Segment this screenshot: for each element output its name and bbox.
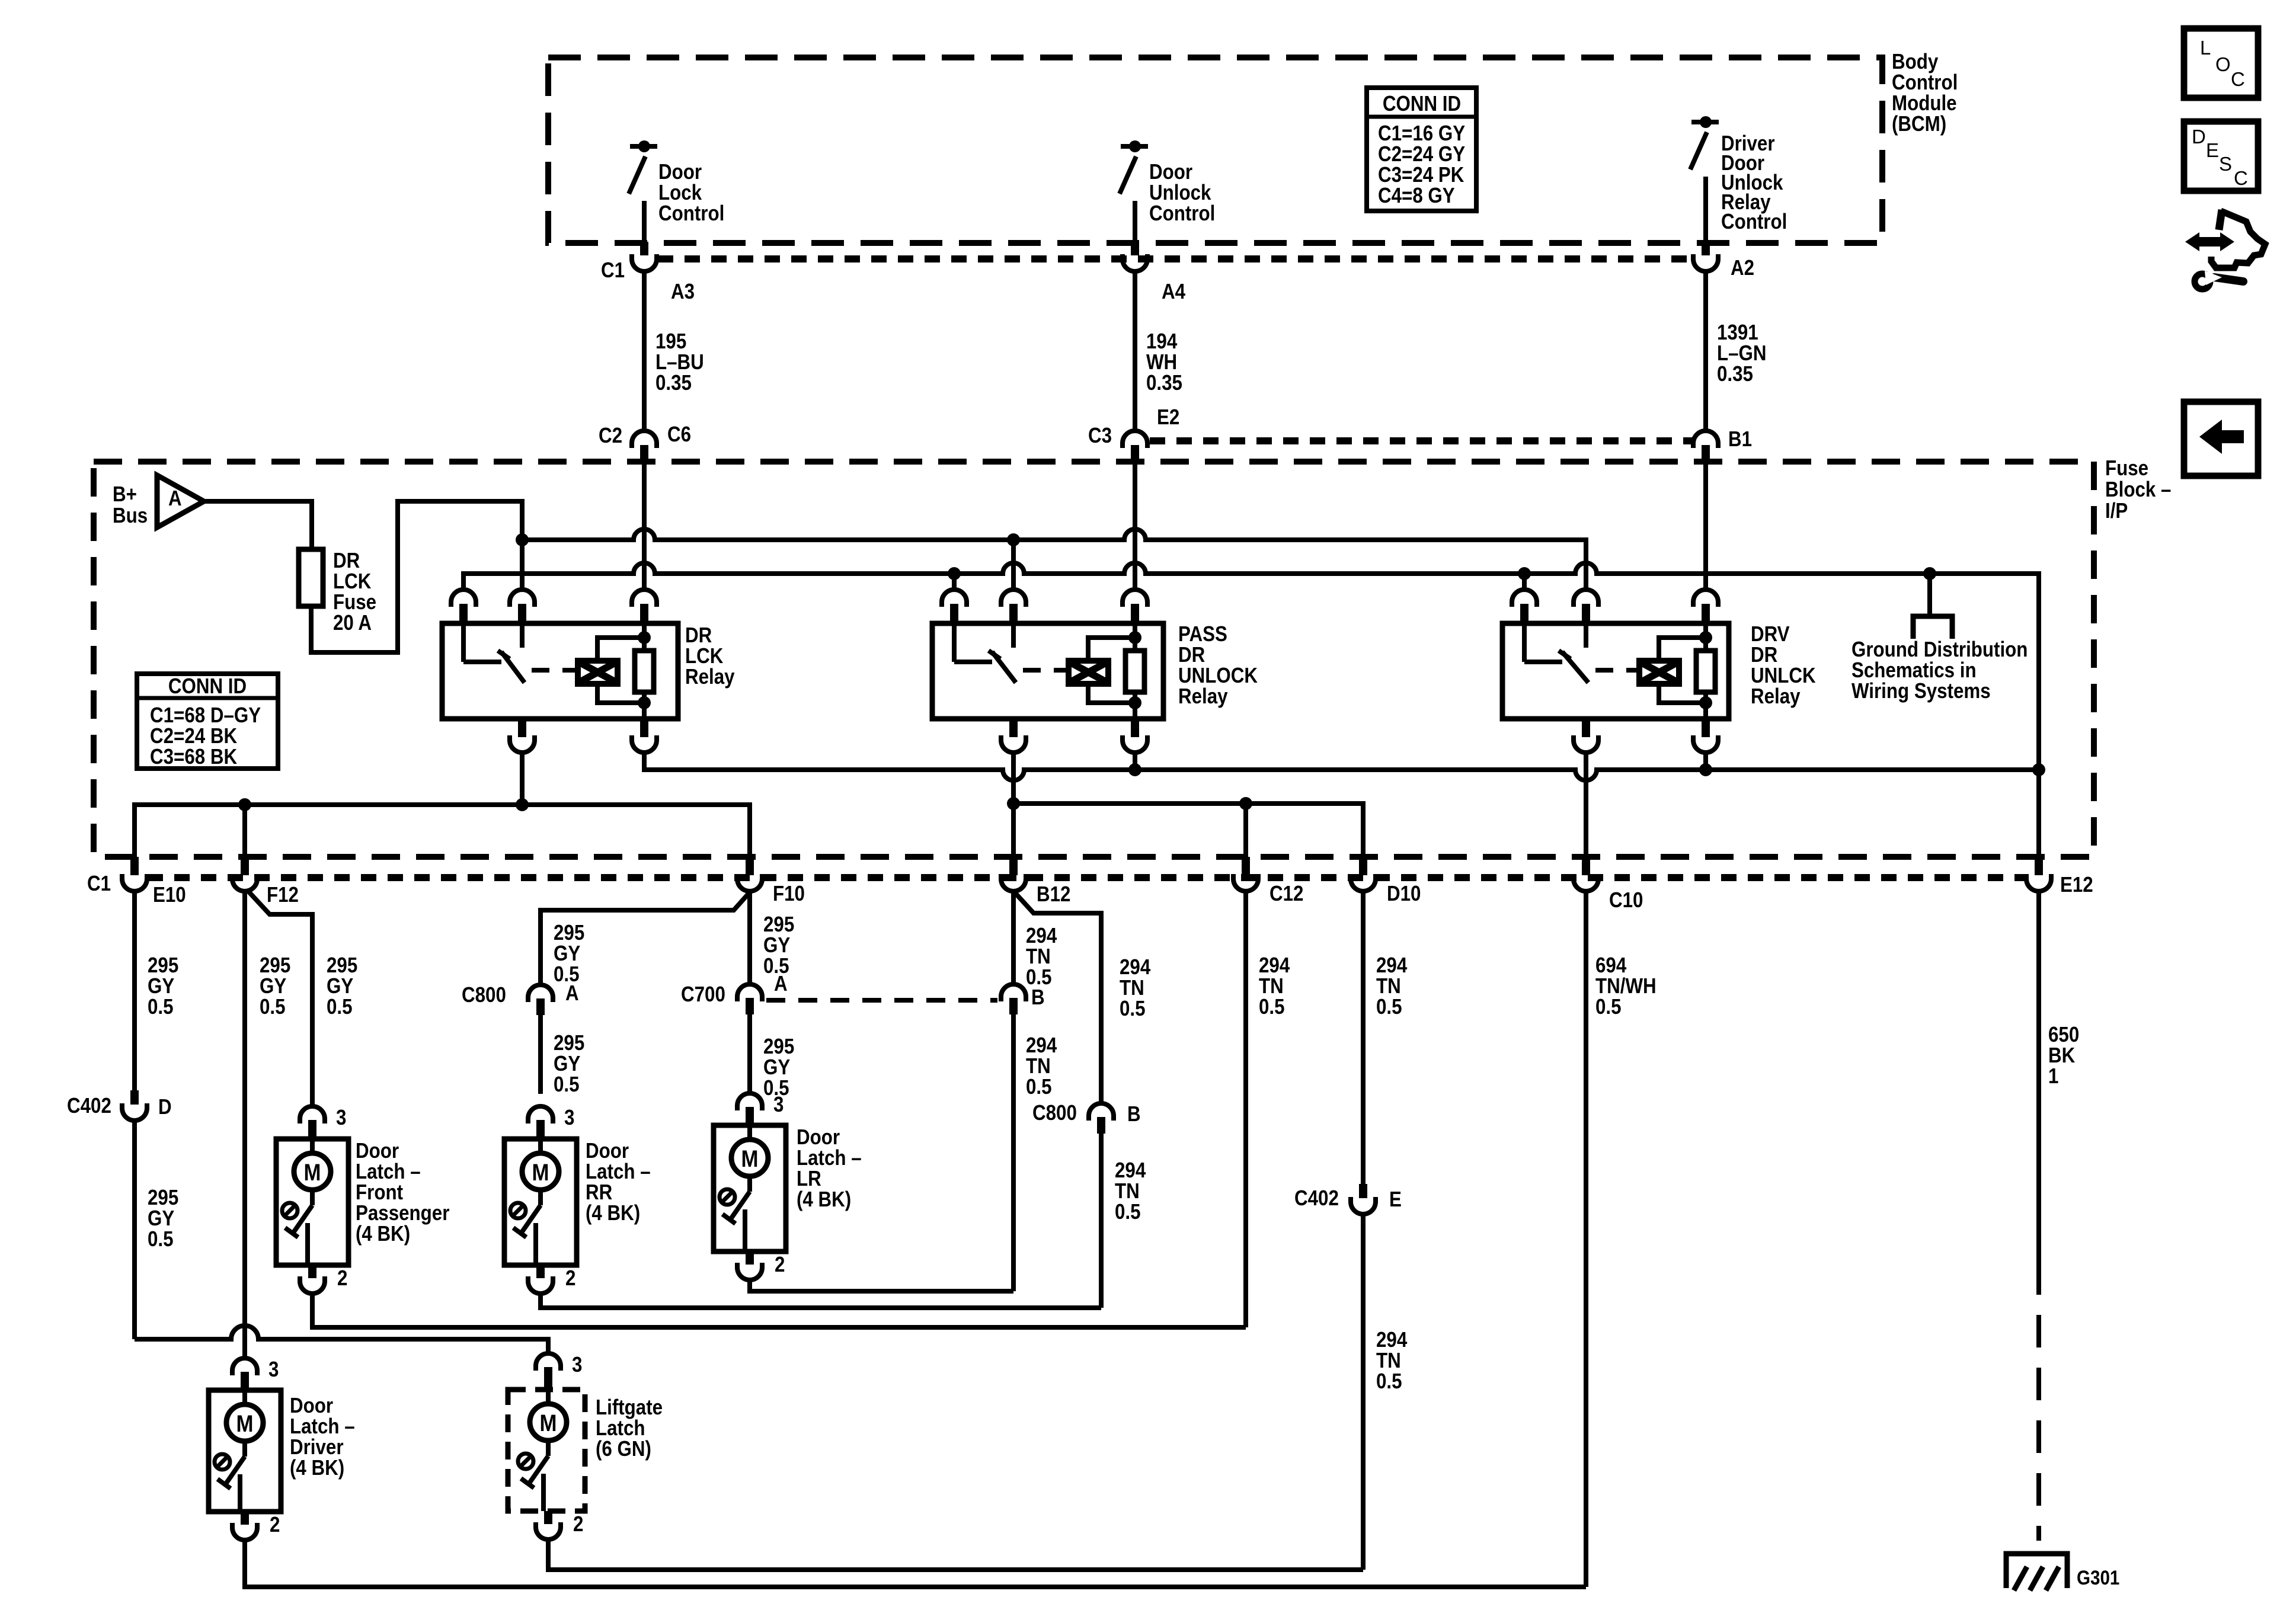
svg-text:0.5: 0.5 bbox=[148, 1227, 174, 1251]
wire F12 down to driver latch bbox=[242, 891, 247, 1358]
svg-text:C10: C10 bbox=[1609, 888, 1643, 913]
connector E10 bbox=[130, 857, 139, 875]
svg-text:A: A bbox=[565, 981, 579, 1006]
svg-text:0.5: 0.5 bbox=[1376, 1369, 1402, 1394]
switch: Driver Door Unlock Relay Control bbox=[1691, 120, 1719, 124]
relay DRV DR UNLCK coil junction dots bbox=[1699, 631, 1712, 644]
svg-text:0.5: 0.5 bbox=[1120, 997, 1146, 1021]
svg-text:M: M bbox=[236, 1410, 254, 1437]
B+ Bus triangle A bbox=[157, 475, 204, 527]
wire DR LCK output bbox=[520, 753, 525, 805]
relay DR LCK top pin bbox=[451, 590, 476, 607]
wire fuse to bus bbox=[311, 501, 522, 652]
svg-text:M: M bbox=[304, 1159, 321, 1186]
svg-text:D10: D10 bbox=[1387, 882, 1421, 906]
switch: Door Unlock Control bbox=[1121, 144, 1148, 149]
svg-text:F12: F12 bbox=[267, 883, 299, 907]
connector C402-E bbox=[1359, 1184, 1367, 1198]
wire LR pin2 to B12 chain bbox=[750, 1280, 1013, 1291]
wire 195 L-BU bbox=[642, 271, 647, 431]
svg-text:3: 3 bbox=[336, 1106, 346, 1130]
svg-text:(4 BK): (4 BK) bbox=[586, 1201, 640, 1225]
relay PASS DR UNLOCK box bbox=[932, 623, 1163, 719]
Door Latch LR motor symbol bbox=[731, 1140, 768, 1176]
connector C2-C6 bbox=[632, 431, 657, 448]
connector F10 bbox=[746, 857, 754, 875]
ground distribution bracket bbox=[1913, 616, 1952, 639]
svg-text:0.5: 0.5 bbox=[554, 1073, 580, 1097]
relay PASS DR UNLOCK switch bbox=[952, 623, 957, 662]
wire C800B lower bbox=[1099, 1134, 1104, 1308]
svg-text:2: 2 bbox=[775, 1253, 785, 1277]
svg-text:S: S bbox=[2219, 153, 2232, 175]
wire D10 lower bbox=[1361, 1214, 1366, 1570]
junction dot lock bus DR LCK out bbox=[516, 798, 529, 811]
relay DR LCK actuation dashed line bbox=[532, 668, 565, 673]
wire RR pin2 to C800B chain bbox=[541, 1294, 1101, 1308]
wire F12 branch to passenger bbox=[247, 890, 312, 1106]
ground G301 bbox=[2006, 1554, 2067, 1588]
svg-text:C1: C1 bbox=[87, 872, 111, 896]
svg-text:Wiring Systems: Wiring Systems bbox=[1851, 679, 1991, 703]
wire F10 branch to RR bbox=[541, 894, 749, 985]
svg-text:2: 2 bbox=[337, 1266, 347, 1291]
relay DR LCK top pin bbox=[510, 590, 535, 607]
svg-text:O: O bbox=[2215, 53, 2231, 75]
wire E10 to liftgate bbox=[135, 1326, 548, 1353]
relay DRV DR UNLCK bottom pin bbox=[1702, 719, 1710, 737]
Door Latch LR pin 3 connector bbox=[737, 1093, 762, 1110]
svg-text:A: A bbox=[168, 486, 182, 511]
wire C12 drop to row bbox=[1243, 804, 1248, 857]
relay DRV DR UNLCK top pin bbox=[1693, 590, 1718, 607]
svg-text:0.5: 0.5 bbox=[327, 995, 353, 1019]
connector C12 bbox=[1242, 857, 1250, 875]
wire E10 down bbox=[132, 891, 137, 1090]
svg-text:C1: C1 bbox=[601, 258, 625, 283]
svg-text:(4 BK): (4 BK) bbox=[797, 1188, 851, 1212]
wire 194 WH bbox=[1133, 271, 1137, 431]
Door Latch Driver box bbox=[209, 1390, 281, 1512]
svg-text:C402: C402 bbox=[1294, 1186, 1339, 1211]
Door Latch RR motor symbol bbox=[522, 1153, 559, 1190]
Liftgate Latch box (dashed) bbox=[508, 1390, 585, 1511]
relay DRV DR UNLCK switch bbox=[1522, 623, 1527, 662]
Door Latch Driver motor symbol bbox=[226, 1404, 263, 1441]
Door Latch RR pin 3 connector bbox=[528, 1106, 553, 1124]
relay DR LCK switch bbox=[461, 623, 466, 662]
relay DRV DR UNLCK top pin bbox=[1512, 590, 1537, 607]
svg-text:I/P: I/P bbox=[2105, 499, 2128, 523]
relay PASS DR UNLOCK coil bbox=[1069, 661, 1108, 684]
svg-text:(6 GN): (6 GN) bbox=[596, 1437, 651, 1461]
LOC icon box bbox=[2184, 28, 2258, 98]
fuse CONN ID table bbox=[137, 674, 278, 769]
wire E10 lower bbox=[132, 1121, 137, 1339]
svg-text:C800: C800 bbox=[462, 983, 506, 1007]
svg-text:3: 3 bbox=[268, 1358, 279, 1382]
svg-text:2: 2 bbox=[573, 1512, 583, 1537]
connector F12 bbox=[241, 857, 249, 875]
connector C402-D bbox=[130, 1090, 139, 1105]
Door Latch Driver pin 2 connector bbox=[241, 1512, 249, 1525]
dashed link C700A to B bbox=[766, 998, 997, 1003]
svg-text:20 A: 20 A bbox=[333, 611, 372, 635]
svg-text:B1: B1 bbox=[1728, 427, 1752, 452]
relay DR LCK coil junction dots bbox=[638, 631, 651, 644]
connector B12 bbox=[1009, 857, 1018, 875]
svg-text:C12: C12 bbox=[1269, 882, 1303, 906]
svg-text:CONN ID: CONN ID bbox=[168, 674, 247, 699]
Door Latch Front Passenger motor symbol bbox=[294, 1153, 331, 1190]
junction dot DRV coil return bbox=[1699, 763, 1712, 776]
wire 650 BK dashed to G301 bbox=[2036, 1262, 2041, 1541]
svg-text:(4 BK): (4 BK) bbox=[356, 1222, 410, 1246]
wire PASS P2 riser bbox=[1011, 540, 1016, 590]
Door Latch RR box bbox=[504, 1139, 577, 1265]
relay PASS DR UNLOCK top pin bbox=[1001, 590, 1026, 607]
wire PASS output bbox=[1011, 753, 1016, 857]
junction dot ground bus to E12 bbox=[2032, 763, 2045, 776]
BCM CONN ID table bbox=[1367, 88, 1476, 211]
lock bus (y1358) bbox=[135, 805, 750, 857]
connector A2 bbox=[1702, 242, 1710, 255]
switch: Door Lock Control bbox=[630, 144, 657, 149]
svg-text:0.5: 0.5 bbox=[1026, 1075, 1052, 1099]
svg-text:M: M bbox=[741, 1145, 759, 1172]
svg-text:L: L bbox=[2200, 37, 2211, 59]
svg-text:Control: Control bbox=[1721, 210, 1787, 234]
relay DRV DR UNLCK coil bbox=[1639, 661, 1679, 684]
wire DRV coil return bbox=[1703, 753, 1708, 770]
svg-text:B: B bbox=[1127, 1102, 1141, 1126]
svg-text:D: D bbox=[2192, 126, 2206, 148]
wire liftgate pin2 to D10 bbox=[548, 1539, 1363, 1570]
junction dot PASS P2 bbox=[1007, 533, 1020, 546]
svg-text:0.35: 0.35 bbox=[655, 371, 692, 395]
svg-text:E2: E2 bbox=[1157, 405, 1179, 430]
junction dot ground distribution bbox=[1923, 567, 1936, 580]
svg-text:B12: B12 bbox=[1037, 882, 1070, 907]
svg-text:M: M bbox=[540, 1410, 557, 1436]
junction dot PASS coil return bbox=[1128, 763, 1141, 776]
connector C10 bbox=[1582, 857, 1590, 875]
ground bus L1 (y968) bbox=[463, 563, 2039, 857]
svg-text:C2: C2 bbox=[599, 424, 622, 448]
fuse DR LCK 20A bbox=[299, 549, 323, 606]
wire RR feed lower bbox=[538, 1015, 543, 1094]
unlock bus (y1356) bbox=[1013, 804, 1363, 857]
svg-text:A3: A3 bbox=[671, 280, 695, 304]
relay DRV DR UNLCK actuation dashed line bbox=[1595, 668, 1626, 673]
Liftgate Latch motor symbol bbox=[530, 1404, 567, 1441]
wire B+ to fuse bbox=[204, 501, 312, 549]
svg-text:M: M bbox=[532, 1159, 549, 1186]
wire F10 down bbox=[747, 891, 752, 984]
svg-text:0.5: 0.5 bbox=[1115, 1200, 1141, 1224]
relay DR LCK bottom pin bbox=[640, 719, 648, 737]
svg-text:C700: C700 bbox=[681, 982, 725, 1007]
svg-text:E10: E10 bbox=[153, 883, 186, 907]
connector C700-A bbox=[737, 984, 762, 1001]
svg-text:Control: Control bbox=[658, 201, 724, 226]
relay PASS DR UNLOCK coil junction dots bbox=[1128, 631, 1141, 644]
Door Latch LR pin 2 connector bbox=[746, 1251, 754, 1265]
wire D10 down bbox=[1361, 891, 1366, 1184]
svg-text:B: B bbox=[1031, 985, 1045, 1010]
wire DR LCK P2 riser bbox=[520, 540, 525, 590]
junction dot unlock bus B12 bbox=[1007, 797, 1020, 810]
svg-text:0.35: 0.35 bbox=[1146, 371, 1182, 395]
wire E12 down (650 BK) bbox=[2036, 891, 2041, 1262]
wire E2 to PASS coil bbox=[1133, 462, 1137, 590]
wire B1 to DRV coil bbox=[1703, 462, 1708, 590]
svg-text:Relay: Relay bbox=[1751, 684, 1801, 709]
relay DRV DR UNLCK bottom pin bbox=[1582, 719, 1590, 737]
wire C10 down bbox=[1584, 891, 1588, 1587]
svg-text:Relay: Relay bbox=[685, 665, 735, 689]
B+ bus L2 (y911) bbox=[522, 529, 1586, 590]
svg-text:E12: E12 bbox=[2060, 873, 2093, 897]
svg-text:0.5: 0.5 bbox=[1376, 995, 1402, 1019]
Liftgate Latch pin 3 connector bbox=[536, 1353, 561, 1371]
svg-text:Control: Control bbox=[1149, 201, 1215, 226]
svg-text:A4: A4 bbox=[1162, 280, 1185, 304]
relay PASS DR UNLOCK top pin bbox=[942, 590, 967, 607]
ground distribution stub bbox=[1927, 574, 1932, 616]
Door Latch Front Passenger pin 3 connector bbox=[300, 1106, 325, 1124]
svg-text:(4 BK): (4 BK) bbox=[290, 1456, 344, 1480]
svg-text:D: D bbox=[158, 1095, 172, 1119]
car diagnostic icon bbox=[2185, 232, 2234, 251]
svg-text:C402: C402 bbox=[67, 1094, 111, 1118]
relay DR LCK resistor bbox=[635, 651, 654, 692]
relay PASS DR UNLOCK top pin bbox=[1123, 590, 1147, 607]
wire LR feed lower bbox=[747, 1014, 752, 1093]
Door Latch Front Passenger box bbox=[276, 1139, 348, 1265]
svg-text:C: C bbox=[2231, 68, 2245, 90]
svg-text:0.5: 0.5 bbox=[1259, 995, 1285, 1019]
connector B (dashed link) bbox=[1001, 984, 1026, 1001]
svg-text:0.35: 0.35 bbox=[1717, 362, 1753, 386]
connector B1 bbox=[1693, 431, 1718, 448]
BCM dashed box bbox=[548, 57, 1882, 243]
connector A4 bbox=[1131, 242, 1139, 255]
connector C800-A bbox=[528, 985, 553, 1002]
connector D10 bbox=[1359, 857, 1367, 875]
connector C800-B bbox=[1089, 1103, 1114, 1121]
BCM connector line C1 (dotted) bbox=[658, 255, 1693, 263]
junction dot B+ feed bbox=[516, 533, 529, 546]
svg-text:C800: C800 bbox=[1032, 1101, 1077, 1125]
svg-text:C4=8 GY: C4=8 GY bbox=[1378, 184, 1455, 208]
svg-text:Relay: Relay bbox=[1178, 684, 1228, 709]
relay DR LCK bottom pin bbox=[518, 719, 526, 737]
wire driver pin2 to C10 bbox=[245, 1540, 1586, 1587]
svg-text:0.5: 0.5 bbox=[260, 995, 286, 1019]
wire B12 branch to C800B bbox=[1015, 892, 1101, 1103]
relay DR LCK box bbox=[442, 623, 678, 719]
Liftgate Latch pin 2 connector bbox=[544, 1511, 552, 1524]
wire PASS coil return bbox=[1133, 753, 1137, 770]
relay DRV DR UNLCK box bbox=[1502, 623, 1729, 719]
bottom connector line (dotted) bbox=[148, 874, 2026, 881]
Door Latch Driver pin 3 connector bbox=[232, 1358, 257, 1375]
svg-text:F10: F10 bbox=[773, 882, 805, 906]
wire DRV P1 riser bbox=[1522, 574, 1527, 590]
svg-text:0.5: 0.5 bbox=[148, 995, 174, 1019]
svg-text:Fuse: Fuse bbox=[2105, 456, 2148, 481]
svg-text:C3=68 BK: C3=68 BK bbox=[150, 745, 238, 769]
wire DRV output to C10 bbox=[1584, 753, 1588, 857]
Door Latch LR box bbox=[714, 1125, 786, 1251]
svg-text:C6: C6 bbox=[667, 422, 691, 447]
relay PASS DR UNLOCK actuation dashed line bbox=[1023, 668, 1056, 673]
svg-text:Block –: Block – bbox=[2105, 478, 2171, 502]
junction dot DRV P1 bbox=[1518, 567, 1531, 580]
wire C6 to DR LCK coil bbox=[642, 462, 647, 590]
relay PASS DR UNLOCK resistor bbox=[1125, 651, 1144, 692]
wire B12 lower bbox=[1011, 1014, 1016, 1291]
junction dot unlock bus C12 bbox=[1239, 797, 1252, 810]
svg-text:3: 3 bbox=[773, 1093, 784, 1117]
svg-text:3: 3 bbox=[564, 1106, 574, 1130]
wire PASS P1 riser bbox=[952, 574, 957, 590]
svg-text:A2: A2 bbox=[1731, 256, 1754, 280]
wire C12 down bbox=[1243, 891, 1248, 1327]
svg-text:B+: B+ bbox=[113, 482, 137, 507]
svg-text:(BCM): (BCM) bbox=[1892, 112, 1946, 136]
connector E12 bbox=[2035, 857, 2043, 875]
svg-text:A: A bbox=[774, 972, 788, 996]
back arrow icon box bbox=[2184, 402, 2258, 476]
Door Latch RR pin 2 connector bbox=[536, 1265, 545, 1278]
svg-text:Bus: Bus bbox=[113, 504, 148, 528]
junction dot PASS P1 bbox=[948, 567, 961, 580]
svg-text:E: E bbox=[2206, 139, 2219, 161]
svg-text:1: 1 bbox=[2048, 1064, 2058, 1089]
connector C1-A3 bbox=[640, 242, 648, 255]
relay DR LCK top pin bbox=[632, 590, 657, 607]
junction dot lock bus F12 bbox=[238, 798, 251, 811]
coil return bus (y1299) bbox=[644, 753, 2039, 780]
wire 1391 L-GN bbox=[1703, 271, 1708, 431]
relay DRV DR UNLCK top pin bbox=[1574, 590, 1598, 607]
svg-text:2: 2 bbox=[270, 1513, 280, 1537]
fuse block connector line (dotted) bbox=[1150, 437, 1692, 444]
connector C3-E2 bbox=[1123, 431, 1147, 448]
svg-text:C3: C3 bbox=[1088, 424, 1112, 448]
relay PASS DR UNLOCK bottom pin bbox=[1009, 719, 1018, 737]
wire passenger pin2 to C12 bbox=[312, 1294, 1246, 1327]
wire F12 drop to row bbox=[242, 805, 247, 857]
svg-text:CONN ID: CONN ID bbox=[1383, 92, 1461, 116]
svg-text:E: E bbox=[1389, 1188, 1402, 1212]
svg-text:3: 3 bbox=[572, 1353, 582, 1377]
relay DRV DR UNLCK resistor bbox=[1696, 651, 1715, 692]
relay PASS DR UNLOCK bottom pin bbox=[1131, 719, 1139, 737]
svg-text:C: C bbox=[2234, 167, 2248, 189]
DESC icon box bbox=[2184, 121, 2258, 191]
svg-text:0.5: 0.5 bbox=[1595, 995, 1622, 1019]
wire B12 down bbox=[1011, 891, 1016, 984]
svg-text:G301: G301 bbox=[2077, 1566, 2119, 1589]
Door Latch Front Passenger pin 2 connector bbox=[308, 1265, 316, 1278]
Fuse Block dashed box bbox=[94, 462, 2094, 857]
relay DR LCK coil bbox=[578, 661, 618, 684]
svg-text:2: 2 bbox=[565, 1266, 575, 1291]
